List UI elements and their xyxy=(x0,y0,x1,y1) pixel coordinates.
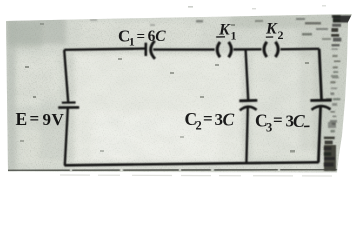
wire: left side bottom (battery to corner) xyxy=(65,108,68,166)
wire: right side down to C3 xyxy=(319,49,321,99)
wire: C2 down to bottom wire xyxy=(246,107,247,164)
svg-text:=: = xyxy=(30,109,40,128)
svg-text:C: C xyxy=(155,28,166,45)
label C3 = 3C xyxy=(255,111,310,135)
capacitor C2 curved bottom plate xyxy=(240,107,257,111)
wire: bottom horizontal xyxy=(64,162,318,165)
capacitor C3 curved bottom plate xyxy=(312,106,331,110)
switch K1 left contact xyxy=(217,42,220,57)
svg-text:E: E xyxy=(16,109,28,129)
wire: left side top (corner to battery) xyxy=(64,50,68,103)
svg-text:=: = xyxy=(203,109,213,128)
svg-text:1: 1 xyxy=(129,35,135,49)
svg-text:2: 2 xyxy=(196,119,202,133)
battery E bottom plate (long) xyxy=(58,106,79,109)
svg-text:=: = xyxy=(273,111,283,130)
svg-text:K: K xyxy=(218,22,231,39)
svg-text:C: C xyxy=(223,110,235,130)
label K2 xyxy=(265,21,284,43)
wire: K2 to top-right corner xyxy=(281,48,320,51)
svg-text:1: 1 xyxy=(231,29,237,43)
capacitor C3 top plate xyxy=(310,99,331,102)
switch K1 right contact xyxy=(229,42,232,57)
svg-text:K: K xyxy=(265,21,278,38)
wire: K1 to K2 through node xyxy=(234,48,262,51)
switch K2 right contact xyxy=(275,42,278,57)
label K1 xyxy=(216,22,236,43)
svg-text:V: V xyxy=(52,110,65,129)
label C1 = 6C xyxy=(118,27,166,49)
svg-text:=: = xyxy=(137,29,146,45)
svg-text:9: 9 xyxy=(43,110,52,129)
svg-text:3: 3 xyxy=(266,121,272,135)
label E = 9V xyxy=(16,109,65,129)
wire: middle branch from node to C2 xyxy=(246,50,249,101)
battery E top plate (short) xyxy=(62,101,76,103)
wire: C3 down to bottom-right corner xyxy=(318,106,320,162)
capacitor C2 top plate xyxy=(239,99,257,102)
wire top-left horizontal: battery corner to C1 left plate xyxy=(64,49,145,50)
svg-text:2: 2 xyxy=(278,28,284,42)
capacitor C1 right curved plate xyxy=(151,41,155,59)
label C2 = 3C xyxy=(185,109,235,133)
capacitor C1 left plate xyxy=(145,43,148,56)
svg-text:C: C xyxy=(293,111,305,131)
switch K2 left contact xyxy=(264,42,267,57)
wire: C1 to switch K1 xyxy=(153,48,214,50)
